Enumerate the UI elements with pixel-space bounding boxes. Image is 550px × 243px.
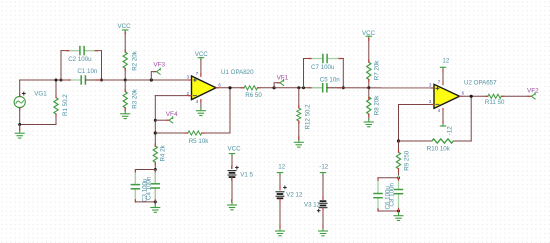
wire U2 output bbox=[460, 95, 488, 97]
wire C3 left leg lower bbox=[134, 189, 136, 202]
capacitor C5 bbox=[309, 84, 340, 92]
wire VG1 top lead bbox=[19, 80, 21, 96]
svg-text:VCC: VCC bbox=[118, 23, 132, 30]
svg-text:C1 10n: C1 10n bbox=[77, 68, 98, 75]
svg-text:R8 20k: R8 20k bbox=[374, 95, 381, 116]
svg-text:VF1: VF1 bbox=[277, 75, 289, 82]
U2 plus mark bbox=[436, 87, 439, 90]
power tick 12 V2 bbox=[277, 173, 282, 175]
V3 plus mark bbox=[317, 209, 320, 212]
junction C8 bottom bbox=[397, 210, 400, 213]
wire C4 leg upper bbox=[154, 170, 156, 184]
wire VG1 bottom lead bbox=[19, 108, 21, 125]
junction VG1 ground node bbox=[18, 123, 21, 126]
capacitor C8 bbox=[395, 176, 403, 207]
capacitor C3 bbox=[131, 171, 139, 202]
test point VF2 bbox=[532, 93, 536, 99]
wire C6 left leg upper bbox=[377, 178, 379, 193]
test point VF3 bbox=[157, 68, 161, 74]
svg-text:R12 50.2: R12 50.2 bbox=[305, 104, 312, 130]
svg-text:R1 50.2: R1 50.2 bbox=[62, 94, 69, 116]
wire C6/C8 branch bottom bbox=[378, 210, 399, 212]
junction R12 tap bbox=[297, 86, 300, 89]
wire C8 leg upper bbox=[398, 178, 400, 189]
wire inverting node vertical U2 bbox=[398, 105, 400, 142]
svg-text:R7 20k: R7 20k bbox=[374, 60, 381, 81]
power tick VCC V1 bbox=[229, 154, 234, 156]
svg-text:R10 10k: R10 10k bbox=[427, 146, 451, 153]
power tick VCC R2 bbox=[123, 30, 128, 32]
wire C7 branch top right bbox=[327, 58, 343, 60]
junction R2/R3 divider bbox=[124, 79, 127, 82]
test point VF4 bbox=[169, 117, 173, 123]
svg-text:R3 20k: R3 20k bbox=[132, 88, 139, 109]
wire U1 inverting input bbox=[155, 95, 191, 97]
ground below R12 bbox=[294, 139, 303, 147]
wire U1 output bbox=[216, 87, 241, 89]
ground below U1 bbox=[196, 108, 205, 116]
svg-text:V2 12: V2 12 bbox=[286, 192, 303, 199]
wire C4 leg lower bbox=[154, 189, 156, 202]
wire V3 bottom lead bbox=[322, 208, 324, 228]
wire VF1 stub bbox=[274, 83, 280, 88]
wire C7 branch right vertical bbox=[342, 59, 344, 88]
svg-text:VG1: VG1 bbox=[34, 90, 47, 97]
resistor R1 bbox=[54, 80, 58, 125]
wire C2 branch top left bbox=[61, 50, 80, 52]
resistor R4 bbox=[153, 146, 157, 170]
capacitor C6 bbox=[374, 180, 382, 211]
junction C7 branch left bbox=[302, 86, 305, 89]
wire C7 branch top left bbox=[304, 58, 323, 60]
capacitor C1 bbox=[68, 76, 99, 84]
ground below R8 bbox=[364, 119, 373, 127]
wire bottom return bbox=[20, 124, 56, 126]
wire U1 negative supply to ground bbox=[200, 100, 202, 109]
wire VG1 to R1 top bbox=[20, 79, 61, 81]
resistor R7 bbox=[367, 38, 371, 88]
ground below C3/C4 bbox=[154, 202, 156, 205]
wire VF1 to C5 bbox=[274, 87, 321, 89]
svg-text:V1 5: V1 5 bbox=[240, 171, 253, 178]
junction C4 bottom bbox=[154, 200, 157, 203]
wire feedback vertical R5 to output bbox=[229, 88, 231, 133]
junction VF1 node bbox=[273, 86, 276, 89]
junction C2 branch left bbox=[60, 79, 63, 82]
power tick -12 V3 bbox=[320, 173, 325, 175]
resistor R3 bbox=[123, 80, 127, 111]
test point VF1 bbox=[280, 79, 284, 85]
junction R7/R8 divider bbox=[367, 86, 370, 89]
svg-text:R11 50: R11 50 bbox=[485, 99, 505, 106]
wire C2 branch top right bbox=[84, 50, 101, 52]
wire V2 bottom lead bbox=[279, 199, 281, 229]
wire VF3 stub bbox=[151, 72, 156, 80]
wire U1 positive supply bbox=[200, 60, 202, 77]
svg-text:R4 2k: R4 2k bbox=[160, 144, 167, 161]
svg-text:V3 12: V3 12 bbox=[304, 201, 321, 208]
resistor R9 bbox=[396, 141, 400, 178]
junction R9/R10 node bbox=[397, 139, 400, 142]
wire C3 branch top bbox=[135, 169, 155, 171]
resistor R8 bbox=[367, 88, 371, 120]
resistor R6 bbox=[241, 86, 274, 90]
svg-text:12: 12 bbox=[278, 163, 285, 170]
wire V2 top lead bbox=[279, 175, 281, 190]
svg-text:-12: -12 bbox=[446, 126, 453, 136]
svg-text:VF4: VF4 bbox=[166, 111, 178, 118]
junction C1 right bbox=[100, 79, 103, 82]
wire main C1 to opamp bbox=[85, 79, 191, 81]
wire C3 left leg upper bbox=[134, 170, 136, 185]
op-amp U2 bbox=[434, 84, 460, 108]
resistor R5 bbox=[155, 131, 230, 135]
wire C6 left leg lower bbox=[377, 198, 379, 211]
svg-text:U2 OPA657: U2 OPA657 bbox=[464, 80, 497, 87]
power tick -12 U2 bbox=[440, 124, 445, 126]
V1 plus mark bbox=[236, 166, 239, 169]
svg-text:U1 OPA820: U1 OPA820 bbox=[221, 69, 254, 76]
svg-text:C5 10n: C5 10n bbox=[320, 77, 341, 84]
svg-text:R5 10k: R5 10k bbox=[189, 138, 210, 145]
wire U2 negative supply bbox=[442, 108, 444, 123]
wire V1 top lead bbox=[231, 156, 233, 168]
wire C7 branch left vertical bbox=[303, 59, 305, 88]
svg-text:R9 250: R9 250 bbox=[404, 150, 411, 171]
svg-text:VCC: VCC bbox=[195, 51, 209, 58]
ground below R3 bbox=[121, 111, 130, 119]
resistor R11 bbox=[488, 94, 531, 98]
capacitor C4 bbox=[151, 170, 159, 201]
svg-text:-12: -12 bbox=[319, 163, 329, 170]
power tick VCC U1 bbox=[198, 58, 203, 60]
junction C5 right bbox=[342, 86, 345, 89]
wire C8 leg lower bbox=[398, 194, 400, 211]
junction R5 tap bbox=[154, 131, 157, 134]
resistor R2 bbox=[123, 32, 127, 80]
capacitor C2 bbox=[67, 47, 98, 55]
svg-text:C2 100u: C2 100u bbox=[68, 56, 92, 63]
svg-text:VF2: VF2 bbox=[527, 87, 539, 94]
ground below V3 bbox=[319, 228, 328, 236]
resistor R12 bbox=[297, 88, 301, 140]
resistor R10 bbox=[399, 139, 472, 143]
svg-text:C7 100u: C7 100u bbox=[311, 64, 335, 71]
U1 minus mark bbox=[193, 95, 196, 97]
U2 minus mark bbox=[436, 103, 439, 105]
ground below V1 bbox=[228, 202, 237, 210]
svg-text:C8 100n: C8 100n bbox=[389, 183, 396, 207]
junction R1 top bbox=[55, 79, 58, 82]
wire V1 bottom lead bbox=[231, 178, 233, 203]
battery V3 bbox=[319, 201, 327, 208]
battery V2 bbox=[276, 192, 284, 199]
junction VF4 stub bbox=[154, 119, 157, 122]
wire C2 branch right vertical bbox=[101, 51, 103, 80]
battery V1 bbox=[228, 171, 236, 178]
wire C2 branch left vertical bbox=[60, 51, 62, 80]
svg-text:12: 12 bbox=[442, 57, 449, 64]
power tick 12 U2 bbox=[440, 67, 445, 69]
junction VF3 node bbox=[150, 78, 153, 81]
svg-text:R6 50: R6 50 bbox=[245, 92, 262, 99]
svg-text:VCC: VCC bbox=[228, 145, 242, 152]
ground below VG1 bbox=[19, 125, 21, 131]
wire U2 inverting input bbox=[399, 104, 435, 106]
svg-text:C4 100n: C4 100n bbox=[146, 176, 153, 200]
junction U1 output node bbox=[228, 86, 231, 89]
ground below V2 bbox=[276, 228, 285, 236]
junction U2 output node bbox=[470, 95, 473, 98]
capacitor C7 bbox=[310, 55, 341, 63]
junction R9 bottom bbox=[397, 176, 400, 179]
wire C5 to U2 bbox=[327, 87, 434, 89]
junction R4 bottom bbox=[154, 168, 157, 171]
ground below C6/C8 bbox=[398, 211, 400, 213]
wire V3 top lead bbox=[322, 175, 324, 200]
wire VF4 stub bbox=[155, 119, 169, 121]
voltage source VG1 bbox=[14, 92, 25, 108]
power tick VCC R7 bbox=[366, 36, 371, 38]
U1 plus mark bbox=[193, 78, 196, 81]
wire inverting node vertical bbox=[154, 96, 156, 147]
svg-text:R2 20k: R2 20k bbox=[132, 50, 139, 71]
wire U2 positive supply bbox=[442, 69, 444, 84]
wire main left of C1 bbox=[61, 79, 81, 81]
wire C3/C4 branch bottom bbox=[135, 201, 155, 203]
op-amp U1 bbox=[192, 76, 217, 100]
V2 plus mark bbox=[284, 186, 287, 189]
wire feedback vertical to output bbox=[470, 96, 472, 141]
wire C6 branch top bbox=[378, 177, 399, 179]
svg-text:VF3: VF3 bbox=[153, 61, 165, 68]
component lead tips bbox=[20, 32, 530, 227]
